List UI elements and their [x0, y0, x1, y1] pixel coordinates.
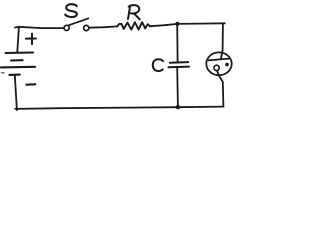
label C	[153, 59, 163, 71]
label R	[128, 5, 140, 19]
capacitor C bottom plate	[169, 66, 190, 69]
junction top (cap branch)	[175, 22, 179, 26]
battery B1 plate short	[11, 59, 23, 61]
label + (battery positive)	[26, 34, 36, 45]
label S	[65, 4, 77, 17]
wire switch to resistor	[89, 26, 117, 27]
battery B1 plate short bottom	[9, 74, 19, 76]
battery B1 plate long top	[6, 51, 34, 54]
switch S right contact	[84, 25, 89, 30]
wire top-left corner	[15, 27, 19, 52]
neon lamp NE envelope	[206, 52, 231, 75]
battery stray tick	[2, 72, 5, 74]
wire top (corner to switch)	[19, 27, 64, 28]
wire lamp bottom stem	[217, 70, 223, 106]
wire capacitor bottom stem	[176, 67, 179, 107]
wire resistor to top-right corner	[150, 23, 225, 26]
neon lamp plate bar	[209, 59, 231, 61]
switch S blade	[69, 18, 88, 25]
resistor R	[117, 22, 150, 29]
battery B1 plate long bottom	[1, 66, 35, 69]
neon lamp ring electrode	[214, 65, 219, 70]
label - (battery negative)	[26, 83, 35, 86]
wire capacitor top stem	[176, 24, 178, 61]
junction bottom (cap branch)	[176, 105, 180, 109]
neon lamp gas dot	[225, 63, 229, 67]
capacitor C top plate	[170, 61, 188, 64]
wire right side down to lamp	[221, 23, 223, 59]
switch S left contact	[64, 25, 69, 30]
wire battery to bottom	[15, 75, 17, 110]
wire bottom	[15, 107, 223, 109]
